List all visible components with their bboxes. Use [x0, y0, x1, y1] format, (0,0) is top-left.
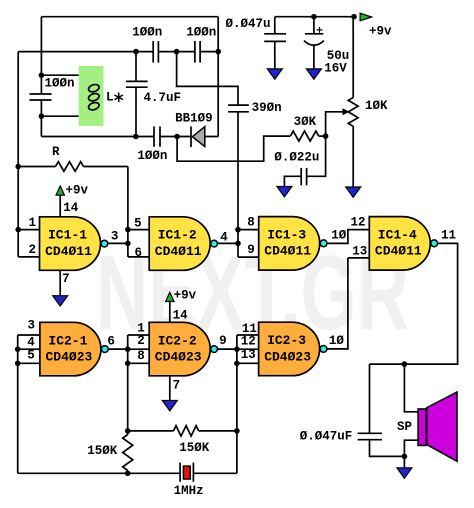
svg-text:7: 7 — [173, 378, 181, 392]
resistor 30K — [290, 131, 318, 141]
svg-text:R: R — [52, 145, 60, 159]
svg-text:3: 3 — [28, 318, 36, 332]
ground 50u — [306, 69, 321, 79]
wire IC2-2 pin7 stub — [169, 376, 171, 401]
svg-text:IC2-2: IC2-2 — [158, 333, 197, 348]
svg-text:9: 9 — [219, 334, 227, 348]
wire 50u leads — [313, 17, 315, 69]
wire tank coil connections — [41, 75, 88, 116]
svg-text:5: 5 — [27, 349, 35, 363]
wire IC1-2 output — [218, 242, 238, 244]
svg-text:CD4Ø23: CD4Ø23 — [45, 349, 92, 364]
ground 0.047u — [267, 69, 282, 79]
NAND gate IC2-2 — [149, 322, 217, 376]
wire vertical 150K stubs — [127, 431, 129, 473]
svg-text:14: 14 — [63, 201, 79, 215]
wire IC1-4 pin13 to IC2-3 output — [327, 258, 348, 349]
wire crystal row — [18, 472, 237, 474]
svg-text:IC1-1: IC1-1 — [48, 228, 87, 243]
svg-text:1MHz: 1MHz — [174, 484, 204, 498]
svg-text:1Ø: 1Ø — [331, 229, 347, 243]
svg-text:Ø.Ø22u: Ø.Ø22u — [274, 151, 319, 165]
resistor 150K vertical — [123, 435, 133, 471]
wire IC2-2 input bracket — [128, 335, 150, 431]
svg-text:13: 13 — [352, 244, 367, 258]
capacitor 0.047uF output — [358, 433, 382, 439]
crystal 1MHz — [180, 463, 193, 482]
svg-text:16V: 16V — [324, 61, 347, 75]
capacitor 0.047u — [264, 34, 286, 42]
NAND gate IC1-3 — [259, 217, 327, 271]
svg-text:15ØK: 15ØK — [179, 441, 210, 455]
wiper arrowhead — [343, 108, 350, 115]
wire dogleg to 30K — [177, 136, 326, 161]
svg-text:14: 14 — [173, 309, 189, 323]
wire oscillator bus y52 — [18, 51, 218, 53]
capacitor 100n coupling (diode row) — [154, 126, 160, 146]
wire 0.047u leads — [274, 17, 276, 69]
svg-text:1: 1 — [28, 216, 36, 230]
inductor L* coil — [88, 83, 100, 111]
wire IC2-1 input bracket — [18, 335, 40, 473]
svg-text:CD4Ø11: CD4Ø11 — [45, 244, 92, 259]
svg-text:9: 9 — [247, 243, 255, 257]
wire IC2-2 output — [218, 348, 237, 350]
+9v supply arrow IC1-1 pin14 — [56, 186, 64, 195]
NAND gate IC2-1 — [40, 322, 108, 376]
wire top-left rail — [41, 16, 218, 18]
wire left vertical x18 — [18, 52, 39, 257]
svg-text:1ØØn: 1ØØn — [44, 76, 74, 90]
svg-text:BB1Ø9: BB1Ø9 — [175, 112, 213, 126]
svg-text:3: 3 — [111, 229, 119, 243]
wire IC1-1 pin7 stub — [59, 270, 61, 295]
resistor R — [56, 162, 84, 172]
svg-text:SP: SP — [397, 420, 412, 434]
ground 0.022u — [277, 187, 292, 197]
svg-text:IC2-1: IC2-1 — [48, 333, 87, 348]
svg-text:1Ø: 1Ø — [329, 334, 345, 348]
wire top-right rail — [275, 16, 354, 18]
wire speaker branch — [404, 364, 418, 468]
svg-text:12: 12 — [350, 216, 365, 230]
L* asterisk — [115, 93, 123, 103]
wire IC2-3 input bracket — [237, 335, 259, 473]
svg-text:CD4Ø11: CD4Ø11 — [155, 244, 202, 259]
svg-text:13: 13 — [241, 348, 256, 362]
speaker SP — [418, 392, 457, 461]
svg-text:1ØØn: 1ØØn — [186, 25, 216, 39]
svg-text:1ØØn: 1ØØn — [132, 25, 162, 39]
svg-text:+9v: +9v — [174, 289, 197, 303]
wire 0.047uF cap branch — [370, 364, 405, 456]
svg-text:6: 6 — [134, 246, 142, 260]
NAND gate IC1-4 — [369, 217, 437, 271]
resistor 150K horizontal — [174, 426, 199, 436]
svg-text:6: 6 — [107, 335, 115, 349]
svg-text:IC1-3: IC1-3 — [267, 228, 306, 243]
capacitor 100n series A — [153, 41, 158, 63]
capacitor 4.7uF — [126, 81, 148, 87]
svg-text:12: 12 — [241, 335, 256, 349]
svg-text:2: 2 — [28, 243, 36, 257]
svg-text:L: L — [106, 91, 114, 105]
wire IC1-2 input bracket — [108, 167, 149, 257]
potentiometer 10K — [348, 98, 358, 127]
svg-text:Ø.Ø47uF: Ø.Ø47uF — [300, 430, 353, 444]
capacitor 100n tank (left) — [30, 94, 52, 100]
capacitor 0.022u — [301, 168, 306, 185]
wire diode row y136 — [41, 136, 218, 138]
svg-text:IC2-3: IC2-3 — [267, 333, 306, 348]
svg-text:CD4Ø11: CD4Ø11 — [264, 244, 311, 259]
wire rail drop to diode node — [217, 17, 219, 137]
svg-text:3ØK: 3ØK — [294, 115, 317, 129]
wire 150K row — [128, 430, 237, 432]
ground IC1-1 pin7 — [53, 296, 68, 306]
NAND gate IC1-1 — [40, 217, 108, 270]
capacitor 100n series B — [195, 41, 200, 63]
ground IC2-2 pin7 — [162, 401, 177, 411]
wire 4.7uF stems — [135, 52, 137, 137]
svg-text:4.7uF: 4.7uF — [144, 91, 182, 105]
+9v supply arrow right — [360, 13, 372, 21]
wire 390n to IC1-3 inputs — [238, 112, 259, 257]
capacitor 390n — [228, 105, 249, 112]
svg-text:4: 4 — [220, 230, 228, 244]
wire IC1-3 output to IC1-4 — [327, 230, 369, 258]
wire IC1-4 output down — [370, 243, 458, 364]
svg-text:IC1-4: IC1-4 — [378, 228, 417, 243]
svg-text:+9v: +9v — [369, 24, 392, 38]
svg-text:4: 4 — [27, 335, 35, 349]
svg-text:1ØK: 1ØK — [365, 99, 388, 113]
wire left drop x41 — [40, 17, 42, 137]
wire 0.022u branch — [284, 136, 325, 186]
+9v supply arrow IC2-2 pin14 — [166, 292, 174, 301]
svg-text:11: 11 — [441, 229, 456, 243]
varactor diode BB109 — [191, 127, 205, 148]
svg-text:IC1-2: IC1-2 — [158, 228, 197, 243]
capacitor 50u 16V electrolytic — [304, 27, 324, 45]
svg-text:Ø.Ø47u: Ø.Ø47u — [225, 17, 270, 31]
svg-text:CD4Ø23: CD4Ø23 — [264, 349, 311, 364]
wire pot wiper — [326, 112, 343, 136]
svg-text:2: 2 — [137, 334, 145, 348]
wire R feedback row — [18, 166, 128, 168]
ground speaker — [397, 468, 412, 478]
NAND gate IC2-3 — [259, 322, 327, 376]
wire IC2-1 output — [109, 348, 128, 350]
svg-text:CD4Ø11: CD4Ø11 — [375, 244, 422, 259]
wire IC2-2 pin14 stub — [169, 302, 171, 323]
svg-text:8: 8 — [247, 215, 255, 229]
svg-text:7: 7 — [62, 272, 70, 286]
svg-text:8: 8 — [137, 349, 145, 363]
svg-text:39Øn: 39Øn — [252, 101, 282, 115]
wire pot leads — [352, 17, 354, 187]
svg-text:CD4Ø23: CD4Ø23 — [155, 349, 202, 364]
svg-text:+9v: +9v — [66, 184, 89, 198]
NAND gate IC1-2 — [149, 217, 217, 270]
wire IC1-1 pin14 stub — [59, 195, 61, 217]
ground 10K pot — [346, 187, 361, 197]
svg-text:5: 5 — [134, 217, 142, 231]
svg-text:15ØK: 15ØK — [87, 444, 118, 458]
svg-text:1ØØn: 1ØØn — [137, 149, 167, 163]
wire 100n junction to 390n — [177, 52, 238, 106]
inductor L* highlight — [79, 66, 104, 126]
